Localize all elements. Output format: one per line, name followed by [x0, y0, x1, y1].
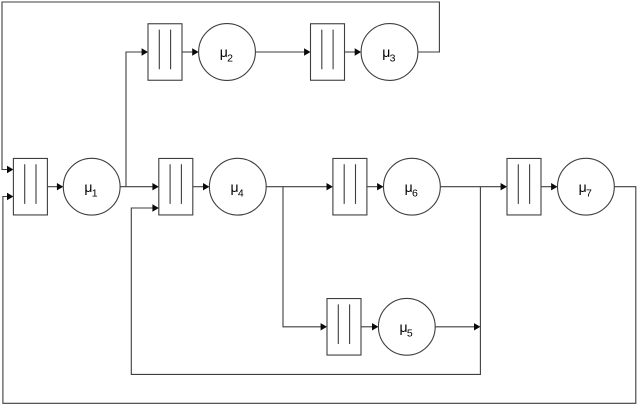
server mu1 circle [63, 158, 120, 215]
queue Q5 slot lines [338, 304, 349, 344]
queue Q2 slot lines [159, 30, 170, 70]
arrow into queue Q4 main input [152, 183, 158, 190]
queue Q6 slot lines [344, 164, 355, 204]
wire mu2 to queue Q3 [255, 51, 304, 53]
wire Q5 to mu5 [361, 326, 372, 328]
svg-text:2: 2 [227, 53, 233, 65]
queue Q1 slot lines [25, 164, 36, 204]
wire Q2 to mu2 [182, 51, 192, 53]
wire Q7 to mu7 [541, 186, 551, 188]
queue Q3 buffer box [311, 24, 345, 81]
wire Q1 to mu1 [47, 186, 57, 188]
arrow into server mu2 [192, 48, 198, 55]
svg-text:5: 5 [407, 328, 413, 340]
arrow into queue Q6 [327, 183, 333, 190]
arrow into queue Q4 feedback input [152, 204, 158, 211]
queue Q5 buffer box [327, 299, 361, 356]
server mu2 circle [199, 24, 256, 81]
server mu7 circle [558, 158, 615, 215]
queue Q6 buffer box [333, 158, 367, 215]
wire mu1 to queue Q4 [120, 186, 153, 188]
wire feedback from node before Q7 down left and up into queue Q4 lower input [131, 187, 480, 375]
server mu6 circle [384, 158, 441, 215]
wire branch from node after mu1 up to queue Q2 [126, 52, 142, 187]
arrow into server mu5 [372, 323, 378, 330]
arrow into queue Q1 lower input [7, 193, 13, 200]
server mu5 circle [378, 298, 435, 355]
wire branch from node after mu4 down to queue Q5 [283, 187, 321, 327]
queue Q2 buffer box [148, 24, 182, 81]
wire feedback loop from mu3 output over the top edge down the left edge into queue Q1 [2, 2, 439, 170]
svg-text:1: 1 [92, 187, 98, 199]
arrow into queue Q2 [142, 48, 148, 55]
svg-text:7: 7 [586, 187, 592, 199]
arrow into server mu1 [57, 183, 63, 190]
queue Q1 buffer box [13, 158, 47, 215]
server mu4 circle [209, 158, 266, 215]
svg-text:6: 6 [412, 187, 418, 199]
arrow into queue Q7 [501, 183, 507, 190]
queue Q7 buffer box [507, 158, 541, 215]
wire mu5 output to merge node on feedback line [435, 326, 474, 328]
wire Q4 to mu4 [193, 186, 203, 188]
wire mu4 to queue Q6 [266, 186, 327, 188]
arrow into queue Q1 upper input [7, 166, 13, 173]
wire feedback loop from mu7 output down the right edge along the bottom up the left into queue Q1 [3, 187, 636, 404]
arrow into server mu3 [355, 48, 361, 55]
arrow into server mu7 [551, 183, 557, 190]
wire Q6 to mu6 [367, 186, 377, 188]
arrow into queue Q3 [304, 48, 310, 55]
server mu3 circle [361, 24, 418, 81]
queue Q4 buffer box [159, 158, 193, 215]
queue Q7 slot lines [518, 164, 529, 204]
svg-text:3: 3 [390, 53, 396, 65]
arrow into server mu4 [203, 183, 209, 190]
queue Q4 slot lines [170, 164, 181, 204]
arrow into queue Q5 [321, 323, 327, 330]
arrow from mu5 into merge junction [474, 323, 480, 330]
arrow into server mu6 [377, 183, 383, 190]
queue Q3 slot lines [322, 30, 333, 70]
svg-text:4: 4 [238, 187, 244, 199]
wire mu6 to queue Q7 [440, 186, 501, 188]
wire Q3 to mu3 [345, 51, 355, 53]
